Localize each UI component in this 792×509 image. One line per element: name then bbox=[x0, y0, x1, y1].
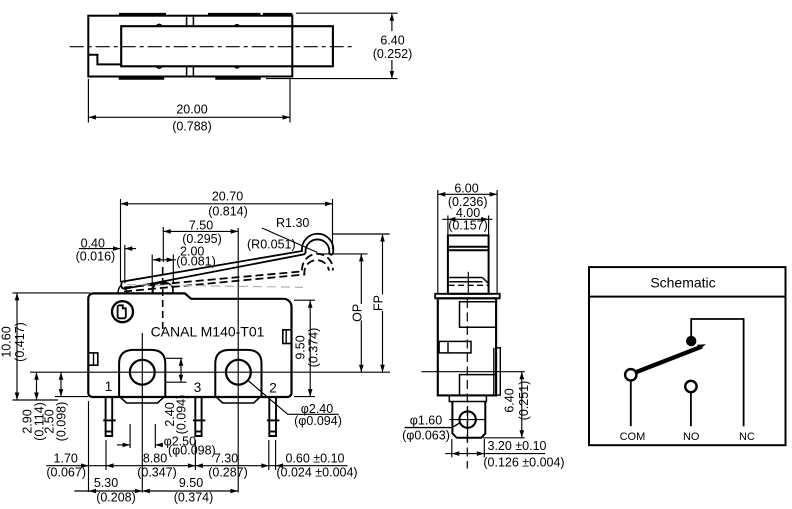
switch body outline bbox=[88, 293, 291, 397]
svg-text:φ1.60: φ1.60 bbox=[410, 414, 442, 428]
right side tab bbox=[283, 330, 292, 344]
schematic header line bbox=[589, 296, 786, 298]
pivot keyhole bbox=[118, 305, 126, 318]
top view seam lines bbox=[187, 16, 194, 77]
NC wire bbox=[691, 319, 743, 426]
lever side view bbox=[448, 235, 489, 295]
svg-text:5.30: 5.30 bbox=[94, 476, 118, 490]
NO terminal circle bbox=[685, 381, 696, 392]
svg-text:3: 3 bbox=[194, 380, 202, 395]
dimension 3.20 (0.126) bbox=[445, 439, 545, 457]
COM terminal circle bbox=[625, 369, 636, 380]
NO stem wire bbox=[690, 392, 692, 426]
svg-text:Schematic: Schematic bbox=[650, 275, 715, 291]
svg-text:9.50: 9.50 bbox=[179, 476, 203, 490]
dimension 20.00 (0.788) bbox=[88, 79, 290, 123]
schematic lever bbox=[636, 347, 702, 373]
svg-text:(0.788): (0.788) bbox=[172, 120, 212, 134]
svg-text:6.00: 6.00 bbox=[454, 181, 478, 195]
FP dimension bbox=[333, 234, 390, 372]
svg-text:R1.30: R1.30 bbox=[276, 216, 309, 230]
released position line (faint) bbox=[127, 285, 303, 288]
side horizontal centerline bbox=[422, 371, 525, 373]
svg-text:7.50: 7.50 bbox=[189, 219, 213, 233]
side inner lower compartment bbox=[460, 375, 497, 396]
hole 1 boss foot bbox=[121, 397, 164, 403]
leader R1.30 bbox=[262, 228, 318, 253]
leader phi2.40 bbox=[248, 381, 339, 415]
svg-text:(0.251): (0.251) bbox=[517, 381, 531, 421]
plunger centerline bbox=[162, 267, 164, 332]
svg-text:FP: FP bbox=[372, 295, 386, 311]
svg-text:9.50: 9.50 bbox=[294, 335, 308, 359]
OP dimension bbox=[318, 254, 368, 304]
top view inner body bbox=[121, 26, 333, 66]
svg-text:(0.098): (0.098) bbox=[55, 402, 69, 442]
svg-text:10.60: 10.60 bbox=[0, 326, 14, 357]
svg-text:(0.374): (0.374) bbox=[307, 328, 321, 368]
hole 1 circle bbox=[130, 360, 155, 385]
svg-text:(0.252): (0.252) bbox=[373, 47, 413, 61]
svg-text:3.20 ±0.10: 3.20 ±0.10 bbox=[488, 439, 547, 453]
dimension 10.60 (0.417) bbox=[12, 293, 90, 400]
svg-text:NO: NO bbox=[683, 431, 700, 443]
bottom dimension row A bbox=[46, 401, 347, 492]
bottom dimension row B bbox=[74, 490, 238, 492]
svg-text:(0.067): (0.067) bbox=[46, 466, 86, 480]
side terminal bbox=[452, 402, 485, 438]
side vertical centerline bbox=[466, 299, 468, 469]
svg-text:(0.208): (0.208) bbox=[96, 491, 136, 505]
dimension 6.40 side (0.251) bbox=[483, 437, 525, 439]
svg-text:(0.016): (0.016) bbox=[76, 250, 116, 264]
plunger bbox=[153, 282, 173, 293]
hole 2 boss foot bbox=[217, 397, 260, 403]
lever arm dashed (operating position) bbox=[124, 254, 333, 292]
svg-text:6.40: 6.40 bbox=[380, 34, 404, 48]
side body inner right line bbox=[493, 348, 495, 395]
svg-text:(0.094): (0.094) bbox=[175, 395, 189, 435]
pin 2 bbox=[267, 397, 280, 436]
top view centerline bbox=[70, 46, 353, 48]
svg-text:8.80: 8.80 bbox=[143, 452, 167, 466]
hole 1 vertical centerline bbox=[141, 333, 143, 493]
pin 1 bbox=[103, 397, 116, 436]
svg-text:(φ0.063): (φ0.063) bbox=[402, 429, 450, 443]
pin 3 bbox=[193, 397, 206, 436]
side body bbox=[438, 298, 496, 395]
svg-text:(0.024 ±0.004): (0.024 ±0.004) bbox=[276, 466, 357, 480]
side right strip bbox=[496, 348, 500, 395]
COM stem wire bbox=[630, 381, 632, 427]
main horizontal centerline bbox=[30, 371, 390, 373]
svg-text:(0.157): (0.157) bbox=[448, 219, 488, 233]
side flange bbox=[435, 294, 500, 299]
dimension 6.00 (0.236) bbox=[438, 190, 497, 294]
side bottom step bbox=[449, 395, 486, 401]
svg-text:2: 2 bbox=[269, 381, 277, 396]
svg-text:0.40: 0.40 bbox=[81, 236, 105, 250]
pivot boss circle bbox=[112, 301, 133, 322]
dimension 20.70 (0.814) bbox=[121, 199, 333, 282]
schematic lever arrow tip bbox=[697, 344, 706, 350]
svg-text:(0.374): (0.374) bbox=[174, 491, 214, 505]
svg-text:(0.126 ±0.004): (0.126 ±0.004) bbox=[483, 455, 564, 469]
side tab bbox=[439, 341, 471, 353]
lever arm solid bbox=[121, 234, 333, 289]
lever pivot foot bbox=[118, 285, 128, 293]
dimension phi2.50 (0.098) bbox=[117, 424, 163, 448]
dimension 2.00 (0.081) bbox=[152, 255, 176, 295]
top view bottom thick bars bbox=[119, 77, 261, 79]
hole 2 boss bbox=[215, 350, 261, 397]
dimension 9.50 right (0.374) bbox=[294, 300, 315, 396]
dimension 7.50 (0.295) bbox=[163, 227, 238, 262]
hole 2 circle bbox=[226, 360, 251, 385]
terminal hole bbox=[459, 411, 475, 427]
NC contact dot bbox=[686, 336, 696, 346]
svg-text:20.00: 20.00 bbox=[176, 103, 207, 117]
svg-text:(R0.051): (R0.051) bbox=[247, 238, 296, 252]
svg-text:CANAL M140-T01: CANAL M140-T01 bbox=[151, 324, 265, 340]
svg-text:COM: COM bbox=[620, 431, 646, 443]
dimension 2.90 (0.114) bbox=[36, 372, 38, 400]
svg-text:1: 1 bbox=[105, 379, 113, 394]
dimension 0.40 (0.016) bbox=[79, 245, 136, 284]
hole 2 vertical centerline bbox=[237, 228, 239, 493]
dimension 2.40 (0.094) bbox=[166, 358, 187, 382]
hole 1 boss bbox=[119, 350, 165, 397]
svg-text:(0.814): (0.814) bbox=[208, 205, 248, 219]
schematic box bbox=[589, 267, 786, 445]
leader phi1.60 bbox=[405, 423, 461, 428]
dimension 4.00 (0.157) bbox=[442, 216, 492, 237]
svg-text:7.30: 7.30 bbox=[214, 452, 238, 466]
svg-text:1.70: 1.70 bbox=[54, 452, 78, 466]
svg-text:20.70: 20.70 bbox=[212, 190, 243, 204]
svg-text:0.60 ±0.10: 0.60 ±0.10 bbox=[286, 452, 345, 466]
top view top thick bars bbox=[119, 13, 292, 16]
svg-text:(φ0.098): (φ0.098) bbox=[168, 443, 216, 457]
svg-text:(0.417): (0.417) bbox=[13, 322, 27, 362]
svg-text:(0.287): (0.287) bbox=[208, 466, 248, 480]
svg-text:NC: NC bbox=[739, 431, 755, 443]
svg-text:(0.081): (0.081) bbox=[176, 255, 216, 269]
top view left step bbox=[88, 55, 121, 65]
svg-text:OP: OP bbox=[350, 304, 364, 322]
top view edge notches bbox=[156, 24, 240, 68]
svg-text:6.40: 6.40 bbox=[503, 388, 517, 412]
side inner upper compartment bbox=[460, 302, 497, 328]
svg-text:(0.347): (0.347) bbox=[137, 466, 177, 480]
left side tab bbox=[88, 353, 98, 365]
top view outer housing bbox=[88, 16, 292, 77]
dimension 2.50 (0.098) bbox=[60, 372, 62, 396]
svg-text:(φ0.094): (φ0.094) bbox=[294, 414, 342, 428]
dimension 6.40 (0.252) bbox=[266, 13, 398, 78]
